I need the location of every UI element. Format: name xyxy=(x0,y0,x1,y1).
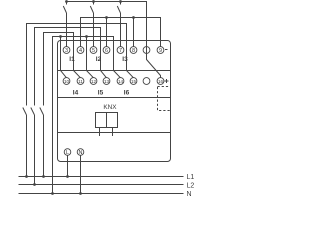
svg-text:7: 7 xyxy=(119,48,122,54)
minus mark terminal 9 xyxy=(165,49,168,51)
svg-text:KNX: KNX xyxy=(103,104,117,111)
terminal 6 xyxy=(103,47,110,54)
switch S1 xyxy=(63,2,66,47)
divider row2 cells xyxy=(58,97,171,99)
terminal 16 xyxy=(157,78,164,85)
terminal 11 xyxy=(77,78,84,85)
svg-text:I5: I5 xyxy=(98,90,104,97)
svg-text:I1: I1 xyxy=(69,56,75,63)
svg-text:11: 11 xyxy=(78,79,83,84)
plus mark terminal 16 xyxy=(165,79,169,83)
svg-text:4: 4 xyxy=(79,48,82,54)
dashed option box xyxy=(158,87,171,111)
svg-text:N: N xyxy=(79,150,83,156)
svg-text:9: 9 xyxy=(159,48,162,54)
terminal L xyxy=(64,149,71,156)
wire feed B from left switch S5 to terminal 13 xyxy=(35,28,107,106)
wire top feed bus from switches to terminal 16+ xyxy=(67,2,161,78)
node S6 to L1 xyxy=(42,175,45,178)
terminal 7 xyxy=(117,47,124,54)
wire feed C from left switch S6 to terminal 11 xyxy=(44,33,81,106)
bus N xyxy=(19,193,184,195)
terminal 10 xyxy=(63,78,70,85)
switch S3 xyxy=(117,2,120,47)
svg-text:12: 12 xyxy=(91,79,97,84)
terminal 3 xyxy=(63,47,70,54)
node switch S3 top xyxy=(119,0,122,3)
svg-text:N: N xyxy=(187,191,192,198)
wire minus bus terminals 4,6,8 to 9 xyxy=(81,18,161,47)
terminal 4 xyxy=(77,47,84,54)
svg-text:I6: I6 xyxy=(124,90,130,97)
svg-text:I3: I3 xyxy=(122,56,128,63)
svg-text:14: 14 xyxy=(118,79,124,84)
wire N to N bus xyxy=(80,155,82,193)
wire feed D neutral to terminals 10,12,14 xyxy=(53,37,121,194)
node L to L1 xyxy=(66,175,69,178)
terminal 8 xyxy=(130,47,137,54)
node D to N xyxy=(51,192,54,195)
switch S6 xyxy=(40,108,44,177)
terminal 12 xyxy=(90,78,97,85)
divider knx section xyxy=(58,132,171,134)
KNX connector xyxy=(96,113,118,137)
terminal blank row2 xyxy=(143,78,150,85)
wire to terminal 10 xyxy=(61,37,67,78)
svg-text:13: 13 xyxy=(104,79,110,84)
svg-text:L: L xyxy=(66,150,69,156)
node junction terminal 6 xyxy=(105,16,108,19)
svg-text:L1: L1 xyxy=(187,174,195,181)
device box U1 xyxy=(58,41,171,162)
terminal 9 xyxy=(157,47,164,54)
svg-text:15: 15 xyxy=(131,79,137,84)
svg-text:I4: I4 xyxy=(73,90,79,97)
terminal blank row1 xyxy=(143,47,150,54)
svg-text:5: 5 xyxy=(92,48,95,54)
divider row1 cells xyxy=(58,70,171,72)
terminal 13 xyxy=(103,78,110,85)
node switch S1 top xyxy=(65,0,68,3)
svg-text:10: 10 xyxy=(64,79,70,84)
svg-text:3: 3 xyxy=(65,48,68,54)
terminal N xyxy=(77,149,84,156)
wire feed A from left switch S4 to terminal 15 xyxy=(27,24,134,106)
bus L1 xyxy=(19,176,184,178)
bus L2 xyxy=(19,184,184,186)
node N to N xyxy=(79,192,82,195)
node junction terminal 8 xyxy=(132,16,135,19)
node junction wire 10 xyxy=(59,35,62,38)
svg-text:6: 6 xyxy=(105,48,108,54)
svg-text:I2: I2 xyxy=(96,56,102,63)
wire terminal 6 up xyxy=(106,18,108,47)
node S4 to L1 xyxy=(25,175,28,178)
node S5 to L2 xyxy=(33,183,36,186)
node junction wire 12 xyxy=(85,35,88,38)
svg-text:16: 16 xyxy=(158,79,164,84)
terminal 15 xyxy=(130,78,137,85)
wire terminal 8 up xyxy=(133,18,135,47)
terminal 5 xyxy=(90,47,97,54)
wire L to L1 bus xyxy=(67,155,69,176)
node switch S2 top xyxy=(92,0,95,3)
wire to terminal 12 xyxy=(87,37,94,78)
switch S5 xyxy=(31,108,35,185)
terminal 14 xyxy=(117,78,124,85)
svg-text:8: 8 xyxy=(132,48,135,54)
switch S2 xyxy=(90,2,93,47)
switch S4 xyxy=(23,108,27,177)
svg-text:L2: L2 xyxy=(187,183,195,190)
